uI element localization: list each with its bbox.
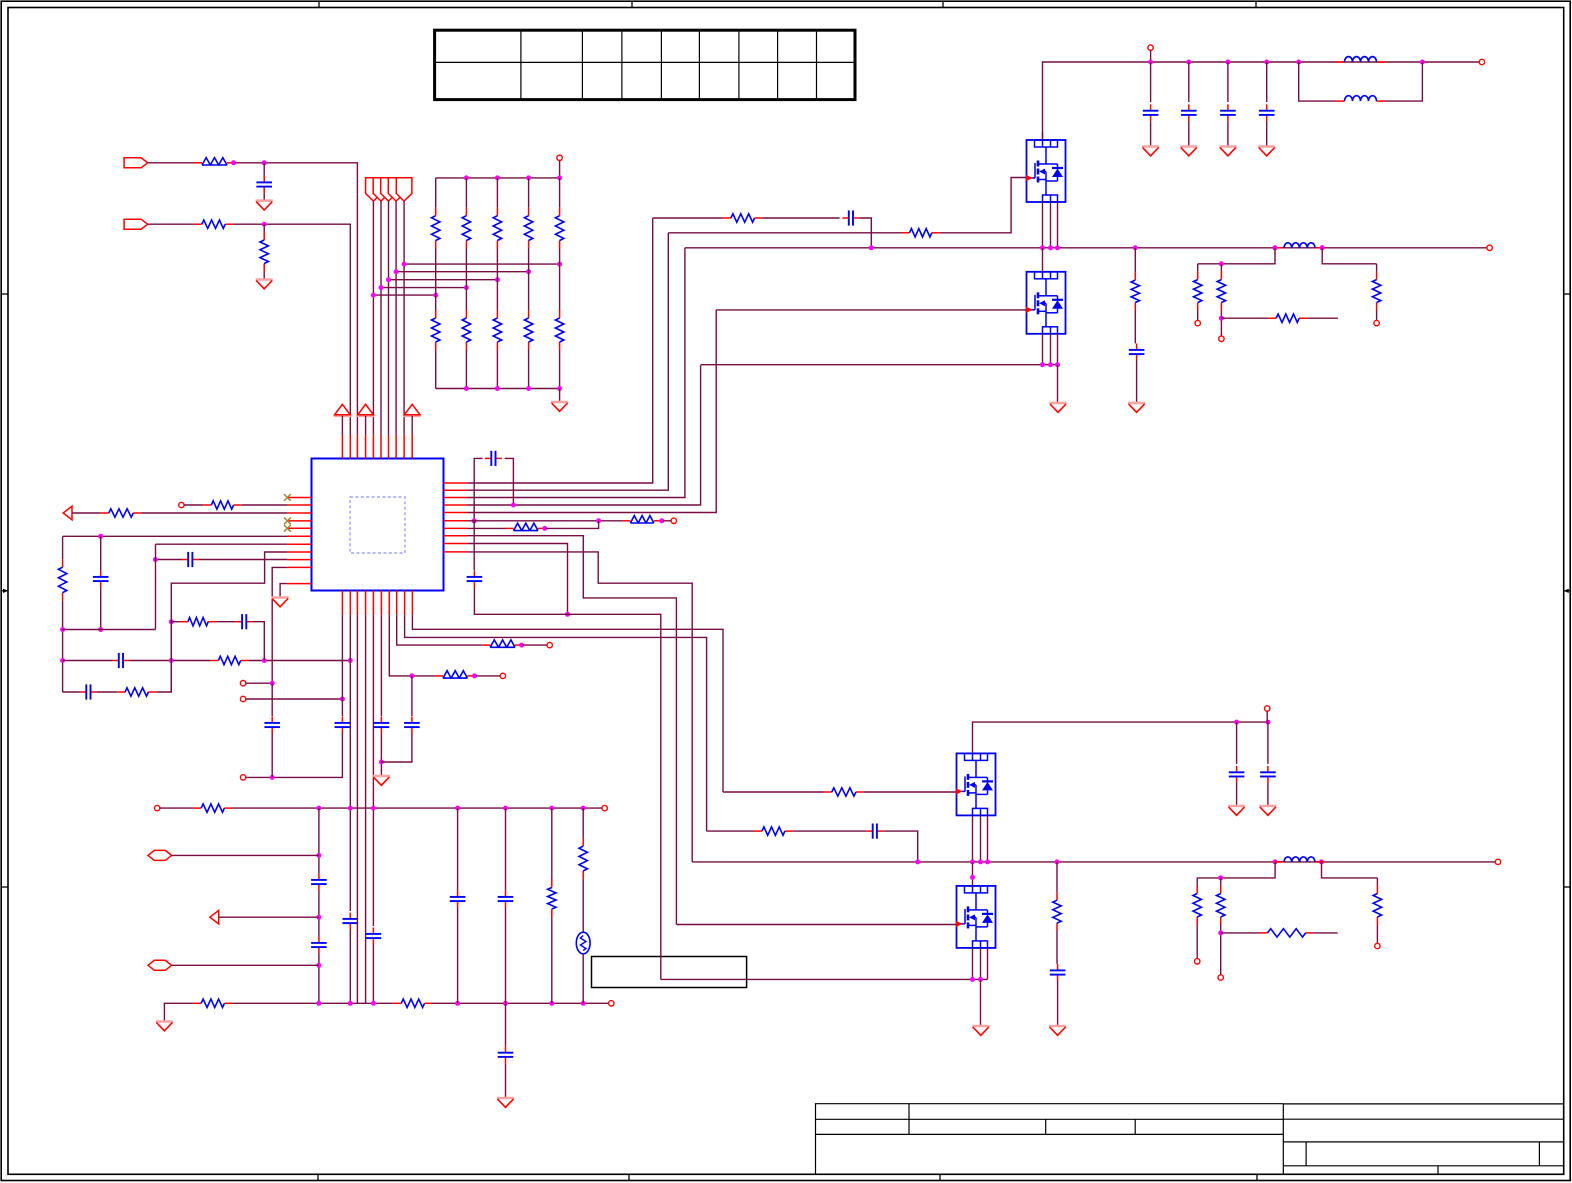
wire cap branch [1227,62,1229,102]
resistor R27 [1053,892,1061,931]
wire L2 up [1386,62,1423,101]
terminal T22 [1375,943,1380,948]
revision table [435,30,855,99]
junction [1320,245,1325,250]
junction [262,222,267,227]
junction [464,175,469,180]
wire rail3 a [63,660,113,662]
junction [464,386,469,391]
junction [316,1001,321,1006]
resistor R22 [1217,272,1225,311]
capacitor C13 [404,717,420,734]
terminal T5 [240,696,245,701]
wire fan1 [372,201,374,435]
junction [581,1001,586,1006]
wire bank column 1 mid2 [435,295,437,310]
junction [371,806,376,811]
resistor R2 [194,220,234,228]
wire bank column 2 mid [465,249,467,288]
wire row 559 right [199,559,288,561]
wire H2 row [172,964,319,966]
ground G9 [1128,403,1145,412]
wire bank column 2 mid2 [465,288,467,310]
junction [60,658,65,663]
resistor RB8 [493,310,501,350]
wire row 544 [156,543,288,545]
junction [503,1001,508,1006]
wire bank column 1 lower [435,350,437,389]
wire bank column 3 lower [496,350,498,389]
resistor R3 [260,232,268,272]
wire pin373 down [372,614,374,926]
wire vert318 a [318,808,320,855]
terminal T1 [557,155,562,160]
wire L2 branch [1299,62,1336,101]
wire bank column 4 mid [528,249,530,272]
wire rail1003 left [164,1003,193,1021]
wire rail 808 [232,807,604,809]
transistor Q2 [1026,272,1066,334]
junction [409,673,414,678]
ground G11 [1049,1026,1066,1035]
wire vert318 c [318,891,320,937]
junction [270,775,275,780]
resistor R20 [1131,272,1139,310]
capacitor Cg [1229,766,1245,783]
wire cap C1 branch [263,163,265,176]
ground Gf [1219,147,1236,156]
capacitor C1 [256,176,272,193]
capacitor C7 [467,571,483,588]
wire Q2 to ground [1057,365,1059,403]
wire row218 a [653,217,723,219]
terminal T11 [609,1001,614,1006]
wire R3 to ground [263,272,265,280]
resistor R8 [117,688,156,696]
wire Q2 drain [1042,248,1044,272]
wire bank net2 [381,287,466,289]
wire A2 row [219,916,319,918]
junction [270,681,275,686]
ground G2 [256,280,273,289]
junction [1186,60,1191,65]
junction [394,269,399,274]
wire div1 right [1322,248,1376,264]
wire R5 to U1 [141,512,287,514]
wire row512 up [468,310,717,513]
junction [316,963,321,968]
junction [1264,60,1269,65]
junction [581,806,586,811]
wire pin350 down2 [349,930,351,1004]
inductor L4 [1275,857,1324,862]
wire row497 up [468,248,685,498]
wire row675 b [476,675,500,677]
terminal T13 [1479,59,1484,64]
wire bypass left leg [474,458,482,520]
junction [98,627,103,632]
resistor R9 [180,618,216,626]
wire C13 lower [381,734,412,763]
connector J2 [124,219,148,229]
wire Q4 to ground [980,979,982,1026]
resistor RB10 [555,310,563,350]
wire C18 branch [505,1003,507,1046]
wire Rd6 term [1376,925,1378,943]
wire row490 up [468,233,669,490]
capacitor Cf [1259,104,1275,121]
junction [1265,720,1270,725]
resistor R17 [506,523,547,530]
resistor RB3 [493,208,501,249]
junction [340,697,345,702]
junction [1133,245,1138,250]
connector A1 [63,506,72,520]
wire fb row end [1307,317,1338,319]
ic U1 left pins [287,498,311,584]
capacitor C19 [842,210,859,225]
wire rail3 b [129,660,210,662]
terminal T3 [671,518,676,523]
power VCC x342.4 [334,404,351,416]
wire bank net5 [404,263,559,265]
wire Rd4 term [1196,925,1198,959]
resistor R10 [435,671,475,678]
wire bank column 1 mid [435,249,437,296]
note box [592,957,747,988]
capacitor C5 [236,614,253,629]
wire row645 b [523,644,547,646]
wire U1 to net B [272,567,287,683]
junction [1420,60,1425,65]
wire Rd2 down [1220,311,1222,337]
zone tick right [1564,294,1570,887]
capacitor C4 [80,684,97,699]
wire T2 to R4 [184,504,203,506]
resistor R18 [723,214,763,222]
capacitor C9 [264,717,280,734]
connector A2 [210,910,219,924]
wire row614 chain [568,614,661,979]
junction [316,853,321,858]
wire row551 chain [468,552,693,862]
wire rail1003 b [232,1002,393,1004]
wire rail2 [63,629,156,631]
junction [1273,859,1278,864]
wire row232 a [668,232,901,234]
wire bank net1 [373,294,435,296]
junction [231,160,236,165]
wire power to IC pin [365,416,367,435]
junction [1055,859,1060,864]
resistor RB4 [524,208,532,249]
capacitor C12 [374,717,390,734]
inductor L1 [1336,57,1386,62]
wire power to IC pin [341,416,343,435]
lamp E1 [576,932,590,954]
wire bank column 3 upper [496,178,498,208]
wire row543 down [468,544,568,615]
resistor RB9 [524,310,532,350]
capacitor C20 [1129,344,1145,361]
wire T4 row [246,682,272,684]
connector J3 [366,178,382,201]
resistor R25 [824,788,864,796]
wire C2 upper [100,536,102,570]
junction [371,1001,376,1006]
terminal T7 [500,673,505,678]
wire Q4 source rail [661,978,988,980]
center arrow left edge [1,589,8,593]
wire VIN2 rail [973,722,1268,753]
wire bank column 5 lower [559,350,561,389]
wire row637 chain [405,614,707,831]
wire Rd5 down [1220,925,1222,975]
junction [386,277,391,282]
junction [985,859,990,864]
wire fan2 [380,201,382,435]
ic U1 bottom pins [342,591,412,615]
junction [348,1001,353,1006]
ground G1 [256,201,273,210]
junction [262,658,267,663]
terminal T12 [1487,245,1492,250]
wire pin365 down [365,614,367,1003]
wire left vert lower [62,601,64,692]
junction [495,386,500,391]
transistor Q3 [956,753,996,815]
wire bank to ground [559,389,561,403]
wire T14 stub [1150,50,1152,62]
wire RC2 b [793,830,866,832]
inductor L2 [1336,96,1386,101]
resistor R15 [579,838,587,879]
wire row675 a [389,614,435,676]
wire H1 row [172,854,319,856]
junction [1218,875,1223,880]
wire fan5 [403,201,405,435]
junction [1218,930,1223,935]
terminal T6 [240,775,245,780]
resistor R31 [1373,886,1381,926]
wire Q3 source2 [980,815,982,862]
capacitor C21 [866,824,883,839]
wire pin342 lower [246,734,342,778]
wire col457 a [457,808,459,890]
wire fb row [1221,317,1268,319]
capacitor C22 [1050,964,1066,981]
junction [557,175,562,180]
junction [1296,60,1301,65]
junction [659,518,664,523]
wire Rd2 stub [1220,264,1222,272]
wire Q3 source3 [987,815,989,862]
wire R9 to C5 [216,621,236,623]
wire cap to ground [1236,783,1238,806]
wire Q1 sources [1042,202,1044,248]
wire RC2 c [883,831,917,862]
wire fan3 [388,201,390,435]
resistor RB1 [432,208,440,249]
wire rail4 c [156,622,171,692]
wire power to IC pin [411,416,413,435]
wire C5 down [253,622,265,661]
junction [348,658,353,663]
junction [60,627,65,632]
capacitor Cf [1181,104,1197,121]
wire J1 to R1 [148,162,195,164]
wire cap branch [1266,62,1268,102]
ground Gf [1258,147,1275,156]
wire pin381 down2 [380,734,382,777]
wire bank bottom rail [436,388,560,390]
junction [455,806,460,811]
terminal T19 [1265,706,1270,711]
wire bypass right leg [505,458,514,505]
wire Rd5 stub [1220,878,1222,886]
junction [970,859,975,864]
wire row629 chain [412,614,723,792]
resistor R5 [101,509,141,517]
junction [316,806,321,811]
wire bank column 5 upper [559,178,561,208]
junction [379,760,384,765]
junction [455,1001,460,1006]
wire fb2 row end [1314,932,1338,934]
wire Q1 source3 [1057,202,1059,248]
wire row520 to T3 [663,520,671,522]
resistor RB5 [555,208,563,249]
resistor R14h [393,999,432,1007]
ground G6 [156,1022,173,1031]
junction [495,277,500,282]
junction [98,534,103,539]
capacitor C15 [311,937,327,954]
junction [1234,720,1239,725]
wire C7 upper [473,521,475,570]
zone tick bottom [318,1174,1257,1180]
junction [978,859,983,864]
wire gate Q1 [940,178,1026,233]
capacitor C5L [182,552,199,567]
connector J1 [124,158,148,168]
junction [472,518,477,523]
wire rail4 b [97,691,117,693]
junction [519,643,524,648]
junction [153,557,158,562]
terminal T8 [547,642,552,647]
resistor R1 [194,158,235,165]
wire Q2 gate row [716,309,1026,311]
junction [464,285,469,290]
junction [1219,261,1224,266]
wire bank column 1 upper [435,178,437,208]
wire bank column 2 upper [465,178,467,208]
junction [1040,362,1045,367]
wire C13 branch [411,676,413,716]
junction [542,526,547,531]
resistor R26 [754,827,793,835]
junction [1048,245,1053,250]
capacitor C16 [450,891,466,908]
wire div2 left [1197,862,1275,878]
wire cap to ground [1188,121,1190,146]
wire row483 up [468,218,653,483]
junction [371,293,376,298]
wire A1 to R5 [72,512,101,514]
wire div2 right [1322,862,1378,878]
wire VIN1 rail [1043,62,1482,140]
inductor L3 [1275,243,1324,248]
wire R4 to U1 [242,504,288,506]
wire SW2 rail [692,861,1498,863]
connector H2 [148,960,172,970]
wire Rd1 term [1197,311,1199,321]
wire C20 to ground [1136,361,1138,404]
ground G4 [272,598,289,607]
wire rail4 a [63,691,80,693]
junction [869,245,874,250]
wire bank top rail [436,177,560,179]
wire row528 up [546,521,599,529]
junction [1040,245,1045,250]
terminal T18 [1495,859,1500,864]
junction [1055,362,1060,367]
wire Q2 source2 [1050,334,1052,365]
junction [433,293,438,298]
wire Q1 source2 [1050,202,1052,248]
wire bank column 4 lower [528,350,530,389]
connector J7 [396,178,412,201]
wire pin381 down [380,614,382,716]
resistor R11 [482,640,523,647]
capacitor Cf [1143,104,1159,121]
resistor R13 [193,999,232,1007]
terminal T9 [155,805,160,810]
wire U1 left 552 chain [171,552,287,692]
wire RC row stub [171,621,180,623]
wire C18 to ground [505,1063,507,1098]
wire Q2 source rail [701,364,1058,366]
resistor R24 [1372,272,1380,311]
junction [348,806,353,811]
resistor RB6 [432,310,440,350]
junction [503,806,508,811]
wire col583 c [582,954,584,1004]
capacitor C11 [366,928,382,945]
terminal T20 [1195,959,1200,964]
wire net B lower [271,734,273,778]
connector J5 [381,178,397,201]
resistor R12 [193,804,232,812]
junction [1225,60,1230,65]
junction [402,262,407,267]
capacitor C18 [498,1046,514,1063]
wire col551 a [551,808,553,879]
wire rail1003 c [433,1002,612,1004]
wire Q2 sources [1042,334,1044,365]
no-connect pin L1 [284,494,291,501]
transistor Q4 [956,886,996,948]
ground G10 [972,1026,989,1035]
resistor R28 [1193,886,1201,926]
ground Gg [1259,806,1276,815]
junction [1148,60,1153,65]
junction [1048,362,1053,367]
junction [262,160,267,165]
wire Q4 drain [972,862,974,886]
wire row218 b [763,217,840,219]
